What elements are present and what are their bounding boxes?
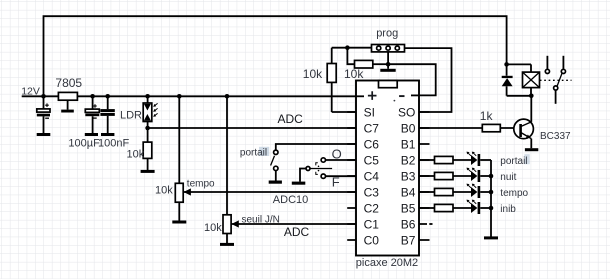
wire relay top link (507, 63, 531, 65)
label BC337 (540, 131, 571, 142)
resistor 470R LED inib (435, 204, 454, 211)
svg-text:C5: C5 (364, 154, 380, 168)
wire base resistor to transistor (500, 127, 519, 129)
svg-text:B6: B6 (401, 218, 416, 232)
svg-text:C1: C1 (364, 218, 380, 232)
wire 5V rail (77, 95, 364, 97)
label O (332, 146, 342, 161)
relay contact arm (554, 74, 562, 104)
pin label B0 (401, 122, 416, 136)
LED tempo (467, 184, 481, 198)
svg-text:ADC: ADC (278, 112, 304, 126)
label picaxe 20M2 (356, 257, 418, 269)
svg-text:portail: portail (240, 148, 267, 159)
svg-text:100nF: 100nF (98, 138, 129, 150)
svg-text:tempo: tempo (187, 178, 215, 189)
label portail (LED) (500, 154, 529, 167)
label inib (500, 204, 516, 215)
wire +12V top rail (44, 16, 507, 96)
label prog (376, 28, 398, 40)
pin label B6 (401, 218, 416, 232)
resistor 10k (LDR divider) (127, 122, 152, 171)
wire B2 to LED resistor (419, 159, 435, 161)
switch portail pushbutton (271, 144, 356, 181)
svg-text:10k: 10k (204, 222, 222, 234)
ground (O/F switch) (292, 182, 306, 185)
label ADC10 (273, 194, 308, 206)
ground (input cap) (37, 133, 51, 136)
wire C3 tempo wiper (184, 191, 357, 193)
relay coil K1 (523, 64, 540, 95)
node junction bus/tempo (489, 190, 494, 195)
svg-text:C2: C2 (364, 202, 380, 216)
value label 100nF (98, 138, 129, 150)
svg-text:B0: B0 (401, 122, 416, 136)
ground (7805) (61, 110, 74, 113)
svg-text:portail: portail (500, 156, 527, 167)
regulator 7805 (55, 76, 82, 110)
resistor 470R LED tempo (435, 188, 454, 195)
node junction seuil pot (225, 94, 230, 99)
photoresistor LDR (143, 96, 157, 121)
pin label C6 (364, 138, 380, 152)
pin label B2 (401, 154, 416, 168)
node junction 12V/cap (41, 94, 46, 99)
wire C4 contact F (326, 175, 357, 177)
pin label C5 (364, 154, 380, 168)
resistor 1k base (480, 109, 501, 132)
pin label C3 (364, 186, 380, 200)
pin label B5 (401, 202, 416, 216)
ground (prog) (380, 69, 395, 72)
wire B0 to base resistor (419, 127, 482, 129)
svg-text:tempo: tempo (500, 188, 528, 199)
svg-text:C0: C0 (364, 234, 380, 248)
node junction bus/inib (489, 206, 494, 211)
wire prog pin2 to ground (387, 52, 389, 69)
node junction pulldown/ground (386, 62, 391, 67)
pin stub minus supply (411, 94, 419, 96)
pin label B4 (401, 186, 416, 200)
svg-text:B3: B3 (401, 170, 416, 184)
pin label B3 (401, 170, 416, 184)
capacitor C1 100µF input electrolytic (37, 96, 50, 133)
svg-text:10k: 10k (155, 185, 173, 197)
svg-text:F: F (332, 174, 340, 189)
svg-text:C3: C3 (364, 186, 380, 200)
wire LED cathode bus (490, 160, 492, 237)
svg-text:C4: C4 (364, 170, 380, 184)
value label 100µF (68, 138, 100, 150)
pin label C7 (364, 122, 380, 136)
pin label C4 (364, 170, 380, 184)
wire B3 to LED resistor (419, 175, 435, 177)
relay contact terminal 2 (561, 56, 565, 74)
pin label C1 (364, 218, 380, 232)
relay contact terminal 1 (545, 56, 549, 74)
pin stubs right B-column (419, 112, 430, 240)
resistor 470R LED portail (435, 156, 454, 163)
wire B4 to LED resistor (419, 191, 435, 193)
svg-text:inib: inib (500, 204, 516, 215)
svg-text:C7: C7 (364, 122, 380, 136)
svg-text:10k: 10k (303, 67, 323, 81)
svg-text:10k: 10k (344, 67, 364, 81)
ground (cap2) (85, 133, 98, 136)
svg-text:BC337: BC337 (540, 131, 571, 142)
wire relay bottom link (507, 95, 532, 97)
node junction cap2 (90, 94, 95, 99)
ground (seuil pot) (220, 243, 234, 246)
LED portail (467, 152, 481, 166)
wire LED nuit to bus (480, 175, 491, 177)
node 12V label (21, 86, 40, 98)
capacitor C2 100µF output electrolytic (85, 96, 99, 133)
pin label C0 (364, 234, 380, 248)
svg-text:1k: 1k (480, 109, 494, 123)
node junction LDR/R divider (145, 126, 150, 131)
label portail (button) (240, 147, 269, 159)
node junction prog/R (345, 45, 350, 50)
label tempo (LED) (500, 188, 528, 199)
relay actuation dotted link (540, 79, 572, 81)
wire resistor to LED nuit (453, 175, 471, 177)
svg-text:100µF: 100µF (68, 138, 100, 150)
pin label SI (364, 106, 375, 120)
svg-text:10k: 10k (127, 149, 145, 161)
wire prog pin1 (332, 47, 372, 49)
svg-text:7805: 7805 (55, 76, 82, 90)
svg-text:B2: B2 (401, 154, 416, 168)
wire 0V to chip minus pin (388, 64, 436, 95)
wire LED portail to bus (480, 159, 491, 161)
connector prog 3-pin (372, 45, 405, 52)
potentiometer 10k seuil J/N (204, 96, 280, 243)
label ADC (C1) (284, 225, 310, 239)
svg-text:C6: C6 (364, 138, 380, 152)
svg-text:ADC: ADC (284, 225, 310, 239)
pin stubs left C-column (347, 112, 356, 240)
ground (LED bus) (484, 236, 498, 239)
ground (portail button) (269, 181, 282, 184)
LED inib (467, 200, 481, 214)
svg-text:SI: SI (364, 106, 375, 120)
pin label SO (398, 106, 415, 120)
label F (332, 174, 340, 189)
switch O/F selector (300, 158, 332, 182)
pin B6 no-connect dash (429, 223, 432, 225)
svg-text:B5: B5 (401, 202, 416, 216)
capacitor C3 100nF (100, 96, 114, 133)
svg-text:O: O (332, 146, 342, 161)
node junction relay bottom (529, 94, 534, 99)
svg-text:B7: B7 (401, 234, 416, 248)
node junction bus/nuit (489, 174, 494, 179)
wire LED inib to bus (480, 207, 491, 209)
resistor 10k serial-in pulldown (344, 48, 388, 81)
svg-text:picaxe 20M2: picaxe 20M2 (356, 257, 418, 269)
svg-text:ADC10: ADC10 (273, 194, 308, 206)
wire 12V input rail (22, 95, 59, 97)
label nuit (500, 172, 516, 183)
wire resistor to LED portail (453, 159, 471, 161)
label ADC (C7) (278, 112, 304, 126)
svg-text:LDR: LDR (120, 109, 142, 121)
wire C7 ADC input (148, 127, 356, 129)
svg-text:B1: B1 (401, 138, 416, 152)
pin label C2 (364, 202, 380, 216)
svg-text:SO: SO (398, 106, 415, 120)
node junction relay top (504, 62, 509, 67)
svg-text:prog: prog (376, 28, 398, 40)
wire C1 seuil wiper (231, 223, 356, 225)
node junction tempo pot (177, 94, 182, 99)
LED nuit (467, 168, 481, 182)
ground (tempo pot) (172, 221, 186, 224)
pin label B1 (401, 138, 416, 152)
potentiometer 10k tempo (155, 96, 215, 220)
ground (transistor emitter) (525, 148, 538, 151)
wire LED tempo to bus (480, 191, 491, 193)
wire C5 contact O (326, 159, 357, 161)
resistor 470R LED nuit (435, 172, 454, 179)
wire SI pin (332, 111, 356, 113)
svg-text:B4: B4 (401, 186, 416, 200)
node junction LDR (145, 94, 150, 99)
ground (LDR divider) (141, 170, 155, 173)
svg-text:nuit: nuit (500, 172, 516, 183)
op-amp U1 picaxe 20M2 chip body (356, 81, 419, 256)
node junction cap3 (105, 94, 110, 99)
pin label B7 (401, 234, 416, 248)
transistor Q1 BC337 (514, 96, 534, 149)
ground (cap3) (101, 133, 114, 136)
wire resistor to LED inib (453, 207, 471, 209)
wire resistor to LED tempo (453, 191, 471, 193)
diode flyback (502, 64, 513, 95)
resistor 10k serial-in series (303, 48, 336, 112)
pin stub plus supply (356, 95, 364, 97)
label LDR (120, 109, 142, 121)
wire B5 to LED resistor (419, 207, 435, 209)
wire prog pin3 to SO (405, 48, 452, 112)
